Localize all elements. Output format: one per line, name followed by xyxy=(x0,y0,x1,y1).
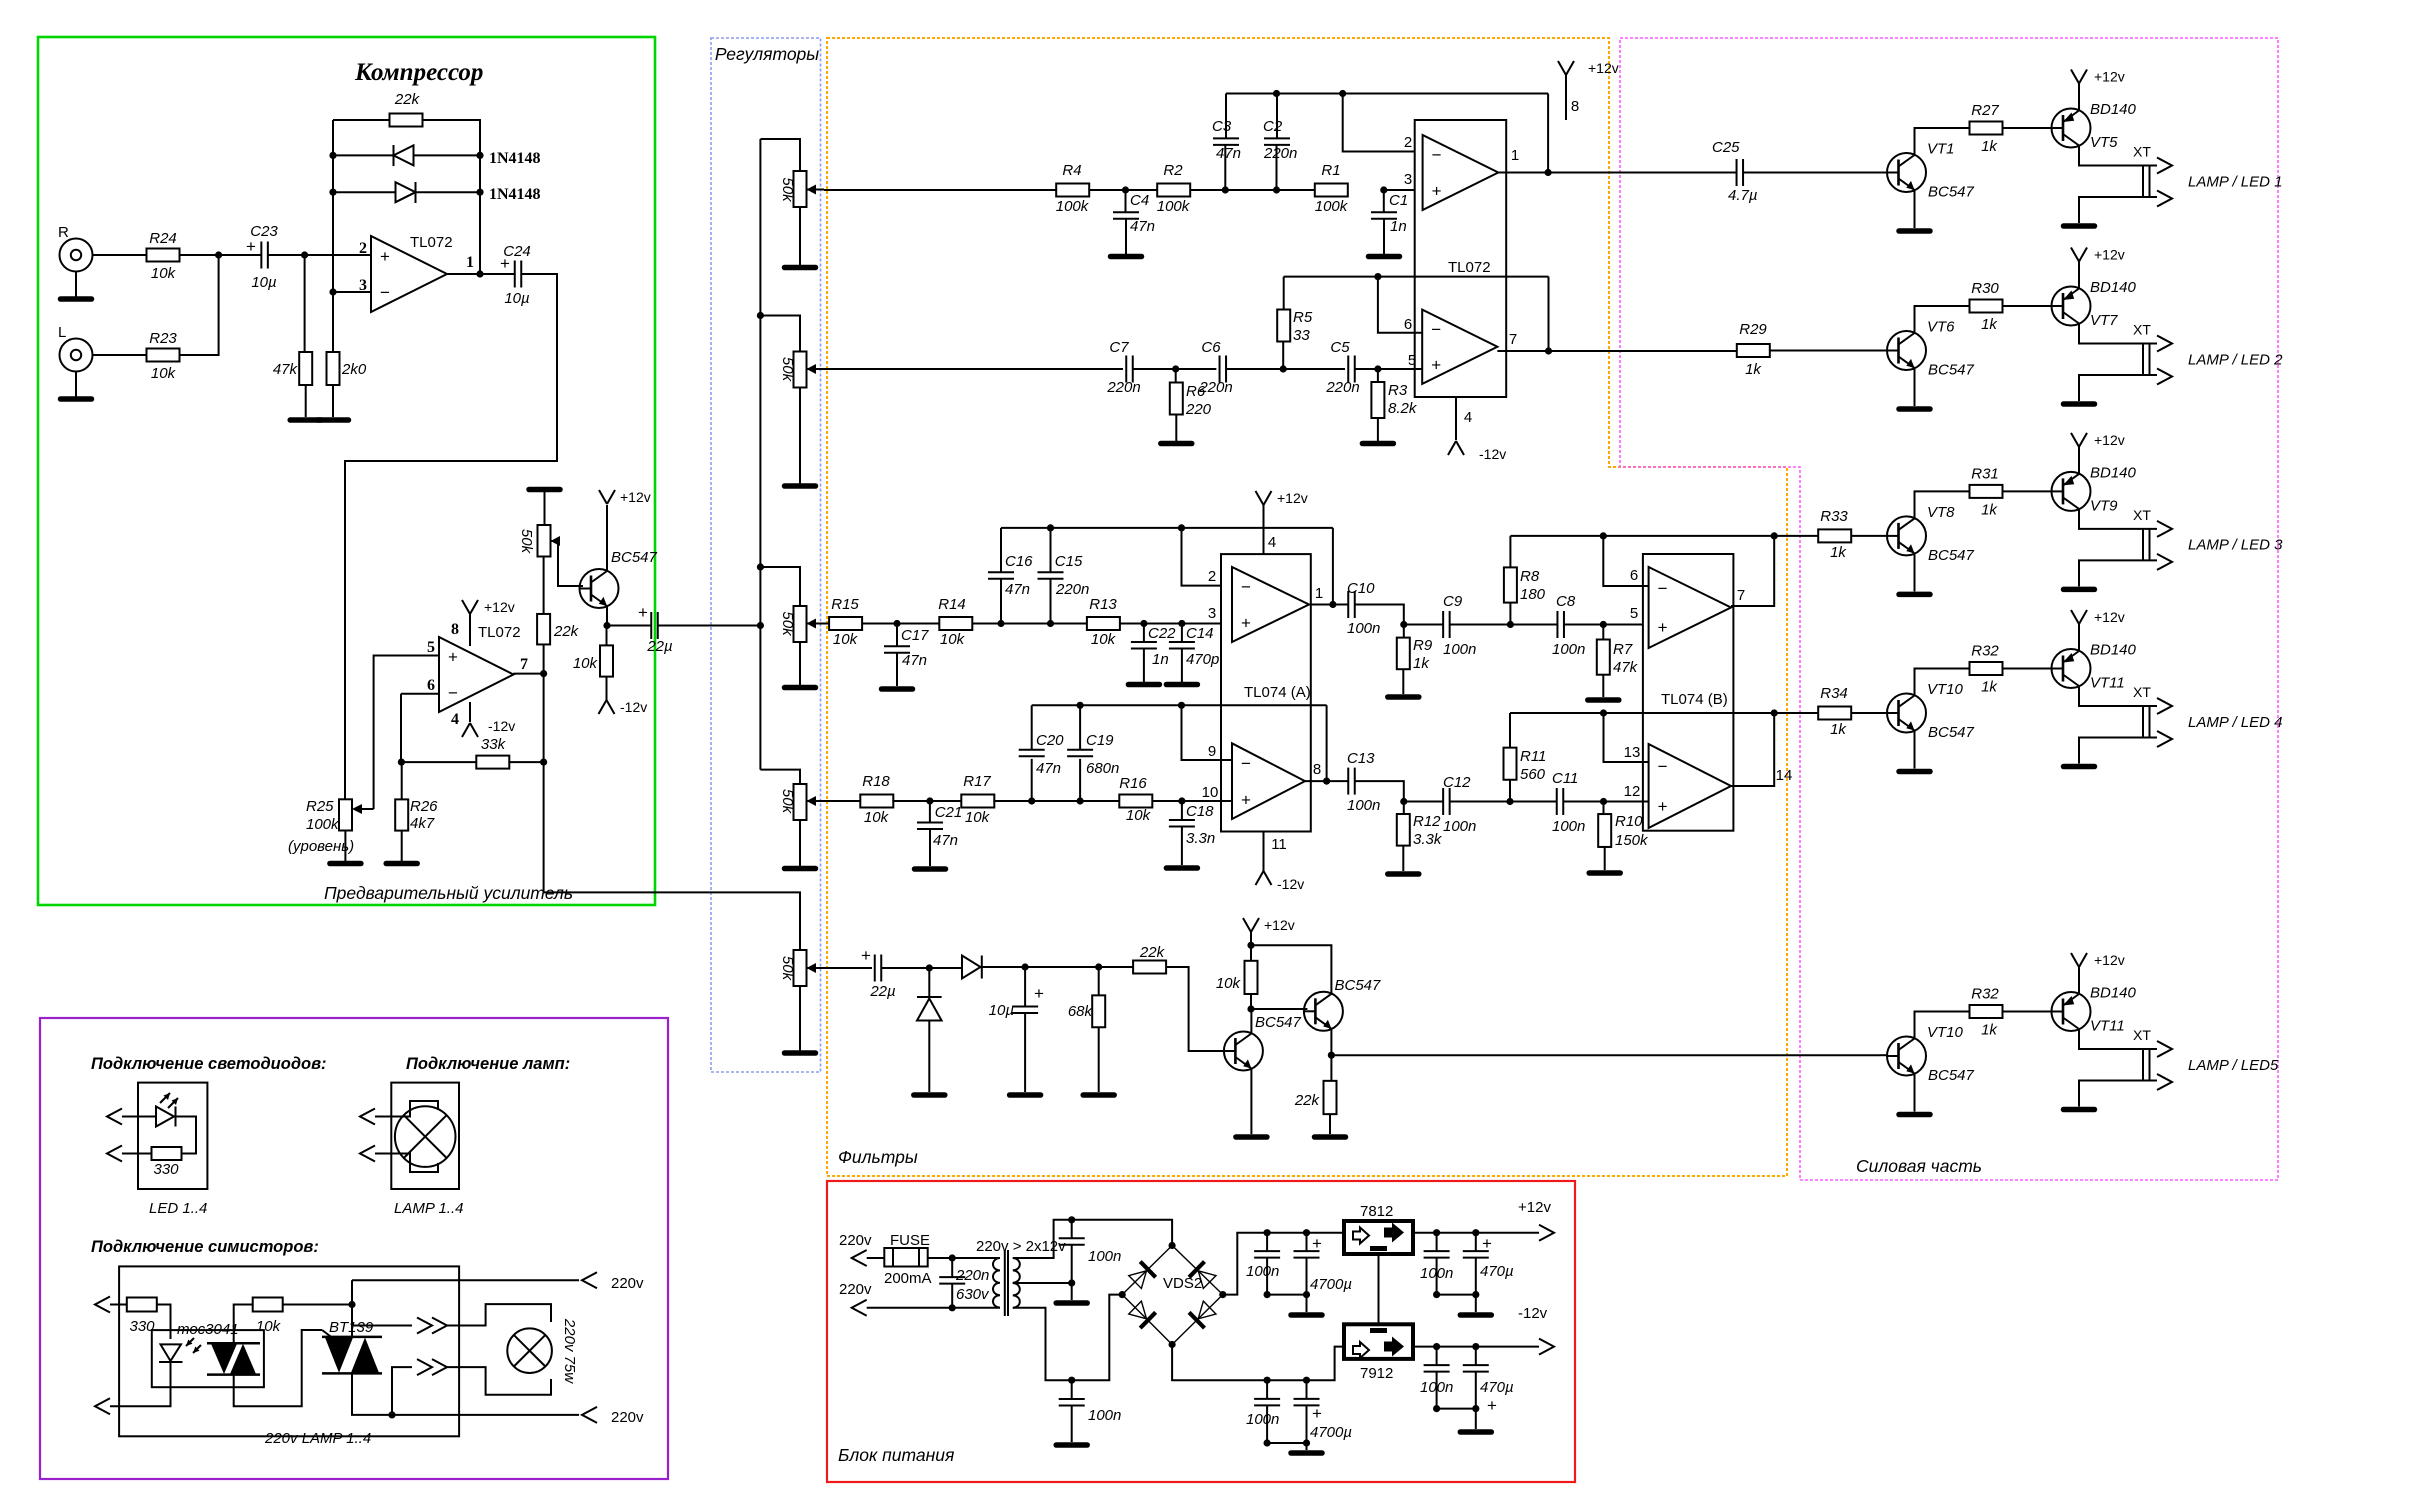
capacitor C23 10µ xyxy=(261,242,268,269)
resistor R27 xyxy=(1970,122,2003,135)
svg-text:220n: 220n xyxy=(1263,145,1297,162)
svg-text:C11: C11 xyxy=(1552,770,1578,787)
resistor 22k preamp xyxy=(537,614,550,645)
ground R10 xyxy=(1589,870,1620,876)
node +12v ch5 xyxy=(1247,942,1254,949)
wire C25 to VT1 base xyxy=(1743,172,1887,174)
wire C2 to feedback rail xyxy=(1276,94,1278,139)
+12v transistor VT11 xyxy=(2071,610,2087,624)
transistor transistor VT1 (NPN BC547) xyxy=(1887,153,1926,192)
svg-text:1n: 1n xyxy=(1390,218,1407,235)
wire lamp out xyxy=(375,1154,438,1173)
wire node to C22 xyxy=(1143,624,1145,643)
wire collector to R xyxy=(1915,1012,1971,1038)
node rail C15 xyxy=(1047,524,1054,531)
wire node to C20 xyxy=(1031,759,1033,801)
wire to 470µ out- xyxy=(1475,1347,1477,1366)
wire collector to R xyxy=(1915,128,1971,154)
capacitor 10µ ch5 xyxy=(1012,1006,1038,1013)
wire 22k pulldown to ground xyxy=(1329,1114,1331,1134)
svg-text:Подключение ламп:: Подключение ламп: xyxy=(406,1055,570,1073)
svg-text:+: + xyxy=(1241,790,1251,809)
wire C3 to feedback rail xyxy=(1225,94,1227,139)
svg-text:R33: R33 xyxy=(1820,508,1848,525)
wire pin8 to +12v xyxy=(1565,75,1567,120)
wire to pin2 xyxy=(1343,94,1423,152)
lamp connection box xyxy=(391,1083,459,1189)
wire caps+ bottoms xyxy=(1267,1294,1306,1296)
wire emitter to +12v xyxy=(2078,624,2080,651)
node ch2 out xyxy=(1545,347,1552,354)
node ch4 c C19 xyxy=(1077,797,1084,804)
connector XT LAMP / LED5 xyxy=(2143,1049,2150,1081)
capacitor C17 47n xyxy=(884,646,910,653)
wire emitter to ground xyxy=(1914,369,1916,406)
node ch2 a xyxy=(1172,365,1179,372)
junction xyxy=(1433,1405,1440,1412)
svg-text:C20: C20 xyxy=(1036,732,1064,749)
svg-text:R15: R15 xyxy=(831,596,859,613)
wire diode2 left xyxy=(333,191,396,193)
potentiometer R25 100k xyxy=(339,799,352,830)
resistor R9 1k xyxy=(1397,638,1410,670)
svg-text:1n: 1n xyxy=(1152,651,1169,668)
resistor R10 150k xyxy=(1598,814,1611,847)
capacitor 100n -out xyxy=(1424,1365,1450,1372)
capacitor 220n 630v xyxy=(939,1277,965,1284)
svg-text:Регуляторы: Регуляторы xyxy=(715,44,819,64)
svg-text:R25: R25 xyxy=(306,798,334,815)
XT LAMP / LED 3 arrow lower xyxy=(2157,554,2172,570)
svg-text:2: 2 xyxy=(1404,134,1412,151)
svg-text:R14: R14 xyxy=(938,596,966,613)
wire ch4 feedback rail xyxy=(1032,704,1327,706)
wire R25 wiper xyxy=(360,808,374,810)
svg-text:BC547: BC547 xyxy=(1928,547,1975,564)
wire pot5 to 22µ xyxy=(824,967,872,969)
svg-text:TL074 (A): TL074 (A) xyxy=(1244,684,1311,701)
wire regulator feed rail xyxy=(759,139,761,770)
wire ch3 feedback riser xyxy=(1332,528,1334,605)
node ch4 a xyxy=(926,797,933,804)
node 470µ- out xyxy=(1472,1343,1479,1350)
wire rail to pot1 xyxy=(760,139,800,171)
ground 50k trimmer top xyxy=(529,487,560,493)
wire C5 to pin5 xyxy=(1355,368,1422,370)
svg-text:+: + xyxy=(1432,182,1442,201)
+12v TL072 filters xyxy=(1558,61,1574,75)
resistor R13 xyxy=(1087,617,1120,630)
wire center tap to ground xyxy=(1071,1283,1073,1300)
wire node to 100n2 xyxy=(1071,1380,1073,1399)
svg-text:BC547: BC547 xyxy=(1928,184,1975,201)
wire R8 to out rail xyxy=(1509,536,1511,568)
svg-text:50k: 50k xyxy=(779,357,796,383)
ground transistor VT10 xyxy=(1899,769,1930,775)
wire 220v top xyxy=(352,1279,579,1281)
svg-text:100k: 100k xyxy=(306,816,340,833)
potentiometer R pot2 50k xyxy=(794,352,807,388)
resistor R4 xyxy=(1056,184,1089,197)
wire node to C19 xyxy=(1079,759,1081,801)
wire 100n out- down xyxy=(1436,1372,1438,1409)
svg-text:L: L xyxy=(58,324,66,341)
node gate/220v xyxy=(348,1301,355,1308)
wire pin14 riser xyxy=(1731,713,1774,786)
ground pot xyxy=(785,866,816,872)
op-amp U4A TL074 ch3 xyxy=(1232,567,1309,642)
svg-text:2k0: 2k0 xyxy=(341,361,367,378)
+12v transistor VT5 xyxy=(2071,70,2087,84)
wire XT return to ground xyxy=(2079,1081,2157,1107)
wire rail to pot3 xyxy=(760,567,800,608)
svg-text:+12v: +12v xyxy=(2094,432,2125,448)
wire to pin2 TL074A xyxy=(1182,528,1233,586)
node R26/33k xyxy=(398,759,405,766)
wire ch3 feedback rail xyxy=(1001,527,1333,529)
svg-text:BC547: BC547 xyxy=(1928,362,1975,379)
svg-text:C25: C25 xyxy=(1712,139,1740,156)
resistor 68k xyxy=(1092,995,1105,1027)
svg-text:+12v: +12v xyxy=(1264,917,1295,933)
node bridge left xyxy=(1119,1291,1126,1298)
svg-text:R10: R10 xyxy=(1615,813,1643,830)
ground R26 xyxy=(386,861,417,867)
wire pin6 from rail xyxy=(1603,536,1648,586)
svg-text:BC547: BC547 xyxy=(1928,1067,1975,1084)
svg-text:+: + xyxy=(1658,618,1668,637)
wire 22k to Q1 base xyxy=(1166,967,1227,1051)
svg-text:−: − xyxy=(1431,320,1441,339)
svg-text:47n: 47n xyxy=(1036,760,1061,777)
svg-text:470µ: 470µ xyxy=(1480,1379,1514,1396)
wire 33k to out rail xyxy=(508,761,543,763)
wire C19 to rail xyxy=(1079,705,1081,750)
wire pin4 to -12v xyxy=(1455,397,1457,440)
svg-text:4: 4 xyxy=(1268,534,1276,551)
node pin7 xyxy=(540,670,547,677)
svg-text:-12v: -12v xyxy=(1277,876,1304,892)
svg-text:100k: 100k xyxy=(1157,198,1191,215)
wire R2 to R1 xyxy=(1190,189,1315,191)
resistor 47k xyxy=(299,352,312,385)
svg-text:47n: 47n xyxy=(902,652,927,669)
wire to ground xyxy=(1306,1443,1308,1450)
resistor R24 xyxy=(147,249,180,262)
svg-text:Фильтры: Фильтры xyxy=(838,1147,918,1167)
wire 68k to ground xyxy=(1098,1027,1100,1092)
node ch3 R9 xyxy=(1400,621,1407,628)
wire jack R to ground xyxy=(75,272,77,298)
svg-text:3: 3 xyxy=(359,277,367,294)
wire pin7 riser xyxy=(1731,536,1774,606)
capacitor C12 100n xyxy=(1443,788,1450,815)
svg-text:10k: 10k xyxy=(1091,631,1117,648)
wire 330 out xyxy=(122,1153,152,1155)
junction xyxy=(1472,1291,1479,1298)
svg-text:XT: XT xyxy=(2133,144,2151,160)
svg-text:Силовая часть: Силовая часть xyxy=(1856,1156,1982,1176)
capacitor C7 220n xyxy=(1126,356,1133,383)
transistor transistor VT11 (PNP BD140) xyxy=(2052,992,2091,1031)
wire node to 100n xyxy=(1071,1220,1073,1239)
wire R5 to rail xyxy=(1283,277,1285,310)
wire 10k to node xyxy=(1250,994,1252,1009)
svg-text:1k: 1k xyxy=(1981,316,1998,333)
svg-text:C6: C6 xyxy=(1201,339,1221,356)
node ch4 d C18 xyxy=(1178,797,1185,804)
svg-text:3: 3 xyxy=(1404,171,1412,188)
node rail C2 xyxy=(1273,90,1280,97)
node ch5 b xyxy=(1022,963,1029,970)
svg-text:R34: R34 xyxy=(1820,685,1848,702)
opto LED xyxy=(159,1344,183,1362)
svg-text:4700µ: 4700µ xyxy=(1310,1424,1352,1441)
svg-text:14: 14 xyxy=(1776,767,1793,784)
node ch4 b C20 xyxy=(1028,797,1035,804)
resistor R16 xyxy=(1119,795,1152,808)
wire R26 to ground xyxy=(401,831,403,862)
svg-text:1k: 1k xyxy=(1981,679,1998,696)
XT LAMP / LED 4 arrow upper xyxy=(2157,698,2172,714)
arrow lamp feed 1b xyxy=(432,1318,447,1334)
wire to C9 xyxy=(1404,624,1443,626)
svg-text:R16: R16 xyxy=(1119,775,1147,792)
wire R to BD140 base xyxy=(2002,127,2052,129)
wire 47k to ground xyxy=(305,385,307,417)
svg-text:10k: 10k xyxy=(864,809,890,826)
capacitor 470µ +out xyxy=(1463,1251,1489,1258)
node 100n+ in xyxy=(1264,1229,1271,1236)
wire feedback left rail xyxy=(332,120,334,352)
wire jack R to R24 xyxy=(93,254,148,256)
node rail pot3 xyxy=(757,563,764,570)
svg-text:7912: 7912 xyxy=(1360,1365,1393,1382)
svg-text:LAMP / LED 1: LAMP / LED 1 xyxy=(2188,173,2282,190)
resistor 22k ch5 pulldown xyxy=(1324,1081,1337,1114)
svg-text:6: 6 xyxy=(1404,316,1412,333)
svg-text:100n: 100n xyxy=(1552,818,1585,835)
node bridge top xyxy=(1169,1242,1176,1249)
node 100n top xyxy=(1068,1216,1075,1223)
svg-text:220v 75w: 220v 75w xyxy=(561,1318,578,1384)
svg-text:1k: 1k xyxy=(1413,655,1430,672)
svg-text:1: 1 xyxy=(466,254,474,271)
wire 330 to opto LED xyxy=(157,1305,171,1340)
LED connection box xyxy=(138,1083,207,1189)
resistor 33k xyxy=(476,756,509,769)
svg-text:+: + xyxy=(1431,356,1441,375)
wire node to R11 xyxy=(1509,780,1511,802)
arrow LED out 2 xyxy=(107,1146,122,1162)
ground 2k0 xyxy=(318,417,349,423)
svg-text:R30: R30 xyxy=(1971,280,1999,297)
XT LAMP / LED 1 arrow lower xyxy=(2157,191,2172,207)
node lamp return xyxy=(388,1411,395,1418)
svg-text:+12v: +12v xyxy=(2094,609,2125,625)
wire to 4700µ in- xyxy=(1306,1380,1308,1399)
svg-text:R12: R12 xyxy=(1413,813,1441,830)
transistor transistor VT10 (NPN BC547) xyxy=(1887,1037,1926,1076)
svg-text:8: 8 xyxy=(451,621,459,638)
wire C13 jog xyxy=(1355,781,1404,801)
svg-text:+12v: +12v xyxy=(1277,490,1308,506)
svg-text:220n: 220n xyxy=(1106,379,1140,396)
wire pin6 down xyxy=(400,694,402,762)
svg-text:8.2k: 8.2k xyxy=(1388,400,1418,417)
svg-text:R2: R2 xyxy=(1163,162,1183,179)
capacitor C1 1n xyxy=(1371,212,1397,219)
wire 100n- down xyxy=(1266,1405,1268,1443)
potentiometer R pot5 50k xyxy=(794,950,807,986)
wire C6 to C5 xyxy=(1226,368,1345,370)
wire chevron1 to lamp socket xyxy=(447,1304,551,1325)
wire +12v to Q2 collector xyxy=(1251,945,1331,993)
wire emitter to +12v xyxy=(2078,84,2080,111)
svg-text:R29: R29 xyxy=(1739,321,1767,338)
svg-text:4: 4 xyxy=(451,711,459,728)
ground C17 xyxy=(882,686,913,692)
wire out- caps bottoms xyxy=(1437,1408,1476,1410)
+12v TL074A xyxy=(1256,491,1272,505)
svg-text:R9: R9 xyxy=(1413,637,1433,654)
wire ch4 output rail xyxy=(1510,712,1820,714)
wire ch3 out to C10 xyxy=(1309,604,1348,606)
wire emitter to +12v xyxy=(2078,447,2080,474)
svg-text:100n: 100n xyxy=(1347,620,1380,637)
wire node to 47k xyxy=(304,255,306,352)
svg-text:50k: 50k xyxy=(779,611,796,637)
svg-text:R32: R32 xyxy=(1971,643,1999,660)
svg-text:C13: C13 xyxy=(1347,750,1375,767)
wire ch4 out to C13 xyxy=(1305,780,1348,782)
svg-text:1k: 1k xyxy=(1745,361,1762,378)
ground -out caps xyxy=(1460,1429,1491,1435)
svg-text:47k: 47k xyxy=(1613,659,1639,676)
svg-text:4k7: 4k7 xyxy=(410,815,435,832)
svg-text:+12v: +12v xyxy=(2094,952,2125,968)
svg-text:1k: 1k xyxy=(1981,1022,1998,1039)
svg-text:100n: 100n xyxy=(1246,1263,1279,1280)
wire collector to XT xyxy=(2079,146,2157,166)
svg-text:+12v: +12v xyxy=(1588,60,1619,76)
node ch2 b xyxy=(1280,365,1287,372)
node fuse/cap xyxy=(949,1254,956,1261)
svg-text:11: 11 xyxy=(1271,836,1287,853)
capacitor C6 220n xyxy=(1220,356,1227,383)
node ch3 d C22 xyxy=(1140,620,1147,627)
arrow -12v out xyxy=(1539,1339,1554,1355)
bridge rectifier VDS2 xyxy=(1122,1246,1223,1345)
wire C8 to pin5 xyxy=(1564,624,1649,626)
capacitor C10 100n xyxy=(1348,591,1355,618)
wire C16 to rail xyxy=(1000,528,1002,572)
svg-text:C3: C3 xyxy=(1212,118,1232,135)
node out/feedback xyxy=(476,270,483,277)
capacitor C15 220n xyxy=(1038,572,1064,579)
svg-text:BC547: BC547 xyxy=(1335,977,1382,994)
wire LED to 330 xyxy=(176,1117,197,1154)
trimmer 50k xyxy=(538,525,551,557)
wire fuse to transformer xyxy=(928,1257,1000,1259)
wire emitter down xyxy=(606,606,608,626)
junction xyxy=(476,152,483,159)
wire to pin6 xyxy=(1378,277,1422,333)
svg-text:100k: 100k xyxy=(1056,198,1090,215)
wire C9 to C8 xyxy=(1450,624,1558,626)
wire ch1 feedback rail xyxy=(1226,93,1548,95)
svg-text:BD140: BD140 xyxy=(2090,642,2137,659)
transformer T1 xyxy=(993,1250,1020,1316)
svg-text:C9: C9 xyxy=(1443,593,1463,610)
wire C21 to ground xyxy=(929,829,931,866)
capacitor C5 220n xyxy=(1348,356,1355,383)
svg-text:10k: 10k xyxy=(151,365,177,382)
wire R17 to R16 xyxy=(993,800,1119,802)
svg-text:−: − xyxy=(380,283,390,302)
wire to op-amp pin3 xyxy=(333,291,371,293)
arrow triac left 1 xyxy=(95,1297,110,1313)
svg-text:47k: 47k xyxy=(273,361,299,378)
wire C20 to rail xyxy=(1031,705,1033,750)
svg-text:LAMP / LED 3: LAMP / LED 3 xyxy=(2188,537,2283,554)
svg-text:68k: 68k xyxy=(1068,1003,1094,1020)
ground C1 xyxy=(1369,254,1400,260)
wire pot to ground xyxy=(799,207,801,266)
resistor R14 xyxy=(939,617,972,630)
wire 100n+ down xyxy=(1266,1258,1268,1295)
ground XT LAMP / LED 2 xyxy=(2064,401,2095,407)
svg-text:10k: 10k xyxy=(573,655,599,672)
wire R33 to VT8 base xyxy=(1851,535,1887,537)
svg-text:VT11: VT11 xyxy=(2090,675,2125,692)
wire node to 10k xyxy=(606,626,608,646)
wire XT return to ground xyxy=(2079,738,2157,764)
resistor R33 xyxy=(1818,529,1851,542)
diode VD2 1N4148 xyxy=(396,182,416,203)
+12v preamp op-amp xyxy=(462,600,478,614)
svg-text:VT6: VT6 xyxy=(1927,319,1955,336)
wire emitter to 22µ xyxy=(607,625,652,627)
svg-text:12: 12 xyxy=(1624,783,1641,800)
wire R34 to VT10 base xyxy=(1851,712,1887,714)
svg-text:100n: 100n xyxy=(1246,1411,1279,1428)
wire node to +12v xyxy=(1250,932,1252,945)
svg-text:100n: 100n xyxy=(1443,641,1476,658)
wire C18 to ground xyxy=(1181,826,1183,865)
diode clamp ch5 xyxy=(917,997,942,1021)
svg-text:C24: C24 xyxy=(503,243,531,260)
svg-text:100n: 100n xyxy=(1347,797,1380,814)
wire emitter to ground xyxy=(1914,1075,1916,1112)
+12v transistor VT7 xyxy=(2071,248,2087,262)
wire R18 to R17 xyxy=(892,800,962,802)
wire pin4 to +12v xyxy=(1263,505,1265,554)
svg-text:1k: 1k xyxy=(1830,721,1847,738)
wire pot to ground xyxy=(799,642,801,686)
arrow LED out 1 xyxy=(107,1109,122,1125)
transistor transistor VT8 (NPN BC547) xyxy=(1887,516,1926,555)
ground 10µ xyxy=(1010,1092,1041,1098)
transistor transistor VT10 (NPN BC547) xyxy=(1887,694,1926,733)
svg-text:22k: 22k xyxy=(553,623,580,640)
svg-text:220: 220 xyxy=(1185,401,1212,418)
junction xyxy=(329,152,336,159)
wire R to BD140 base xyxy=(2002,668,2052,670)
svg-text:R8: R8 xyxy=(1520,568,1540,585)
svg-text:VT1: VT1 xyxy=(1927,141,1955,158)
svg-text:TL072: TL072 xyxy=(478,624,521,641)
